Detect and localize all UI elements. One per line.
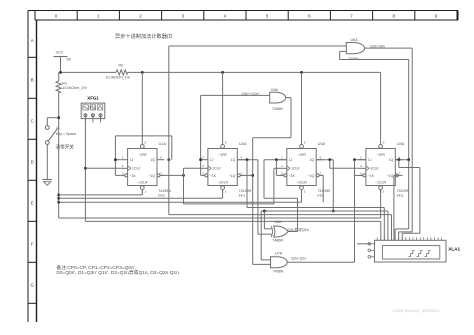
svg-text:清零开关: 清零开关 [56,143,75,150]
svg-text:74109N: 74109N [239,189,252,193]
wire rail to U3A PR [301,72,303,140]
svg-text:~1PR: ~1PR [297,153,306,157]
resistor R1 10.0kOhm [56,72,87,117]
svg-text:A: A [31,38,34,43]
wire Q2 to U7A input [261,211,270,260]
label clear-switch [56,143,75,150]
wire CP rail [85,221,380,240]
svg-text:~1Q: ~1Q [148,174,155,178]
svg-text:R2: R2 [119,64,124,68]
svg-text:10.0kOhm_1%: 10.0kOhm_1% [106,76,131,80]
op-amp U7A AND gate 7408N [271,251,288,273]
svg-text:F: F [31,241,34,246]
svg-text:J1: J1 [56,126,60,130]
svg-text:7408N: 7408N [272,107,283,111]
svg-text:1CLK: 1CLK [370,167,379,171]
svg-text:~1Q: ~1Q [308,174,315,178]
wire CLK rail [184,203,274,205]
svg-text:1CLK: 1CLK [212,167,221,171]
wire rail to U2A PR [222,72,224,140]
svg-text:C: C [31,118,34,123]
svg-text:~1CLR: ~1CLR [137,181,148,185]
svg-text:1J: 1J [368,158,372,162]
wire node Q3 [395,158,410,240]
wire CLK rail to FF2 CLK [274,168,280,204]
svg-text:XFG1: XFG1 [87,95,99,100]
svg-text:7408N: 7408N [273,269,284,273]
flip-flop U3A 74109N FF2 [280,140,331,198]
svg-text:CSDN @weixin_39609623: CSDN @weixin_39609623 [392,308,440,313]
wire Q1 rail [247,208,384,241]
svg-text:G: G [30,282,34,287]
note line 2 [56,269,180,276]
op-amp U6A AND gate 7408N [346,38,364,61]
svg-text:VCC: VCC [56,51,64,55]
svg-text:7486N: 7486N [272,239,283,243]
svg-text:~1CLR: ~1CLR [375,181,386,185]
svg-text:FF0: FF0 [158,194,164,198]
wire Q2 to XOR input [264,211,271,229]
label Q3n.Q0n [370,44,385,48]
wire node ~Q3 [394,175,399,240]
wire node D3 tie [355,160,363,176]
svg-text:74109N: 74109N [318,189,331,193]
wire Q2 to FF3 CLK [330,160,359,169]
wire rail to U1A PR [141,72,143,140]
note line 1 [56,264,135,271]
svg-text:备注:CP0=CP, CP1=CP2=CP3=Q0n',: 备注:CP0=CP, CP1=CP2=CP3=Q0n', [56,264,135,271]
svg-text:U2A: U2A [239,142,247,146]
svg-text:Key = Space: Key = Space [56,132,76,136]
svg-text:D0=Q0n', D1=Q3n' Q1n', D2=Q2n异: D0=Q0n', D1=Q3n' Q1n', D2=Q2n异或Q1n, D3=Q… [56,269,180,276]
wire clear-net vertical with junctions [57,116,60,218]
svg-text:~1K: ~1K [289,174,296,178]
svg-text:1Q: 1Q [150,158,155,162]
watermark [392,308,440,313]
svg-text:~1K: ~1K [210,174,217,178]
svg-text:XLA1: XLA1 [448,247,460,252]
svg-text:1CLK: 1CLK [291,167,300,171]
svg-text:10.0kOhm_1%: 10.0kOhm_1% [62,86,87,90]
label Q3n'Q1n' [242,92,261,96]
svg-text:~1PR: ~1PR [376,153,385,157]
svg-text:1J: 1J [130,158,134,162]
svg-text:1Q: 1Q [389,158,394,162]
wire U6A output to analyzer [365,48,413,240]
wire node D1 vertical [199,95,202,175]
wire node ~Q0 [160,168,201,204]
svg-text:1Q: 1Q [310,158,315,162]
label Q2n xor Q1n [288,227,309,232]
svg-text:U6A: U6A [351,38,359,42]
flip-flop U2A 74109N FF1 [201,140,252,198]
svg-text:FF1: FF1 [239,194,245,198]
svg-text:~1PR: ~1PR [218,153,227,157]
svg-text:U1A: U1A [159,142,167,146]
svg-text:1J: 1J [210,158,214,162]
wire U7A output node D3 [287,158,366,262]
flip-flop U4A 74109N FF3 [359,140,410,198]
power VCC 5V [54,51,72,73]
wire CP to FF0 CLK [85,167,120,169]
wire switch to ground [46,144,48,179]
switch J1 (Key = Space) [45,126,76,145]
wire CLR rail to FF0 [59,190,143,195]
wire VCC rail right [59,71,381,74]
svg-text:U4A: U4A [397,142,405,146]
wire node D2 tie [276,160,283,176]
wire U6A input B from Q3 [340,51,409,159]
wire node Q2 [316,158,334,212]
resistor R2 10.0kOhm [106,64,131,80]
svg-text:U7A: U7A [275,251,283,255]
wire node Q1 [237,158,258,207]
svg-text:~1Q: ~1Q [229,174,236,178]
svg-text:1CLK: 1CLK [132,167,141,171]
wire CLR rail to FF1 [59,190,223,199]
svg-text:1J: 1J [289,158,293,162]
svg-text:B: B [31,77,34,82]
svg-text:~1Q: ~1Q [387,174,394,178]
wire node D0 tie [114,136,172,176]
svg-text:~1K: ~1K [130,174,137,178]
svg-text:~1CLR: ~1CLR [296,181,307,185]
wire Q0 rail to analyzer [169,160,392,241]
svg-text:74109N: 74109N [397,189,410,193]
wire Q1 to XOR input [258,160,272,235]
svg-text:Q2n·Q1n: Q2n·Q1n [291,256,306,260]
title text [115,32,173,40]
wire node ~Q1 [240,174,252,176]
wire rail to U4A PR [380,72,382,140]
wire CLR rail to FF2 [59,190,302,203]
svg-text:U5A: U5A [271,88,279,92]
wire analyzer trigger stub [357,243,371,245]
wire to switch top [47,118,58,126]
svg-text:1Q: 1Q [231,158,236,162]
svg-text:R1: R1 [62,81,67,85]
logic analyzer XLA1 [368,237,460,262]
svg-text:~1K: ~1K [368,174,375,178]
function generator XFG1 [81,95,105,122]
svg-text:E: E [31,200,34,205]
svg-text:FF3: FF3 [397,194,403,198]
wire node ~Q2 [319,175,323,202]
wire U5A input A [201,94,270,96]
svg-text:~1PR: ~1PR [138,153,147,157]
wire U8A output node D2 [264,158,298,231]
ground [43,180,52,186]
wire Q2 rail [261,210,388,241]
wire VCC rail left [61,71,117,73]
op-amp U5A AND gate 7408N [270,88,286,111]
svg-text:74109N: 74109N [158,189,171,193]
wire U5A output [251,98,291,265]
wire CP from XFG1 down [84,119,87,222]
svg-text:5V: 5V [67,58,72,62]
wire CLR rail to FF3 [59,190,381,219]
wire node Q0 up [167,46,346,161]
svg-text:异步十进制加法计数器(D: 异步十进制加法计数器(D [115,32,173,40]
svg-text:U3A: U3A [318,142,326,146]
svg-text:D: D [31,159,34,164]
flip-flop U1A 74109N FF0 [120,140,171,198]
op-amp U8A XOR gate 7486N [271,220,288,243]
svg-text:~1CLR: ~1CLR [217,181,228,185]
wire Q3 right loop [399,160,420,241]
label Q2n.Q1n [291,256,306,260]
